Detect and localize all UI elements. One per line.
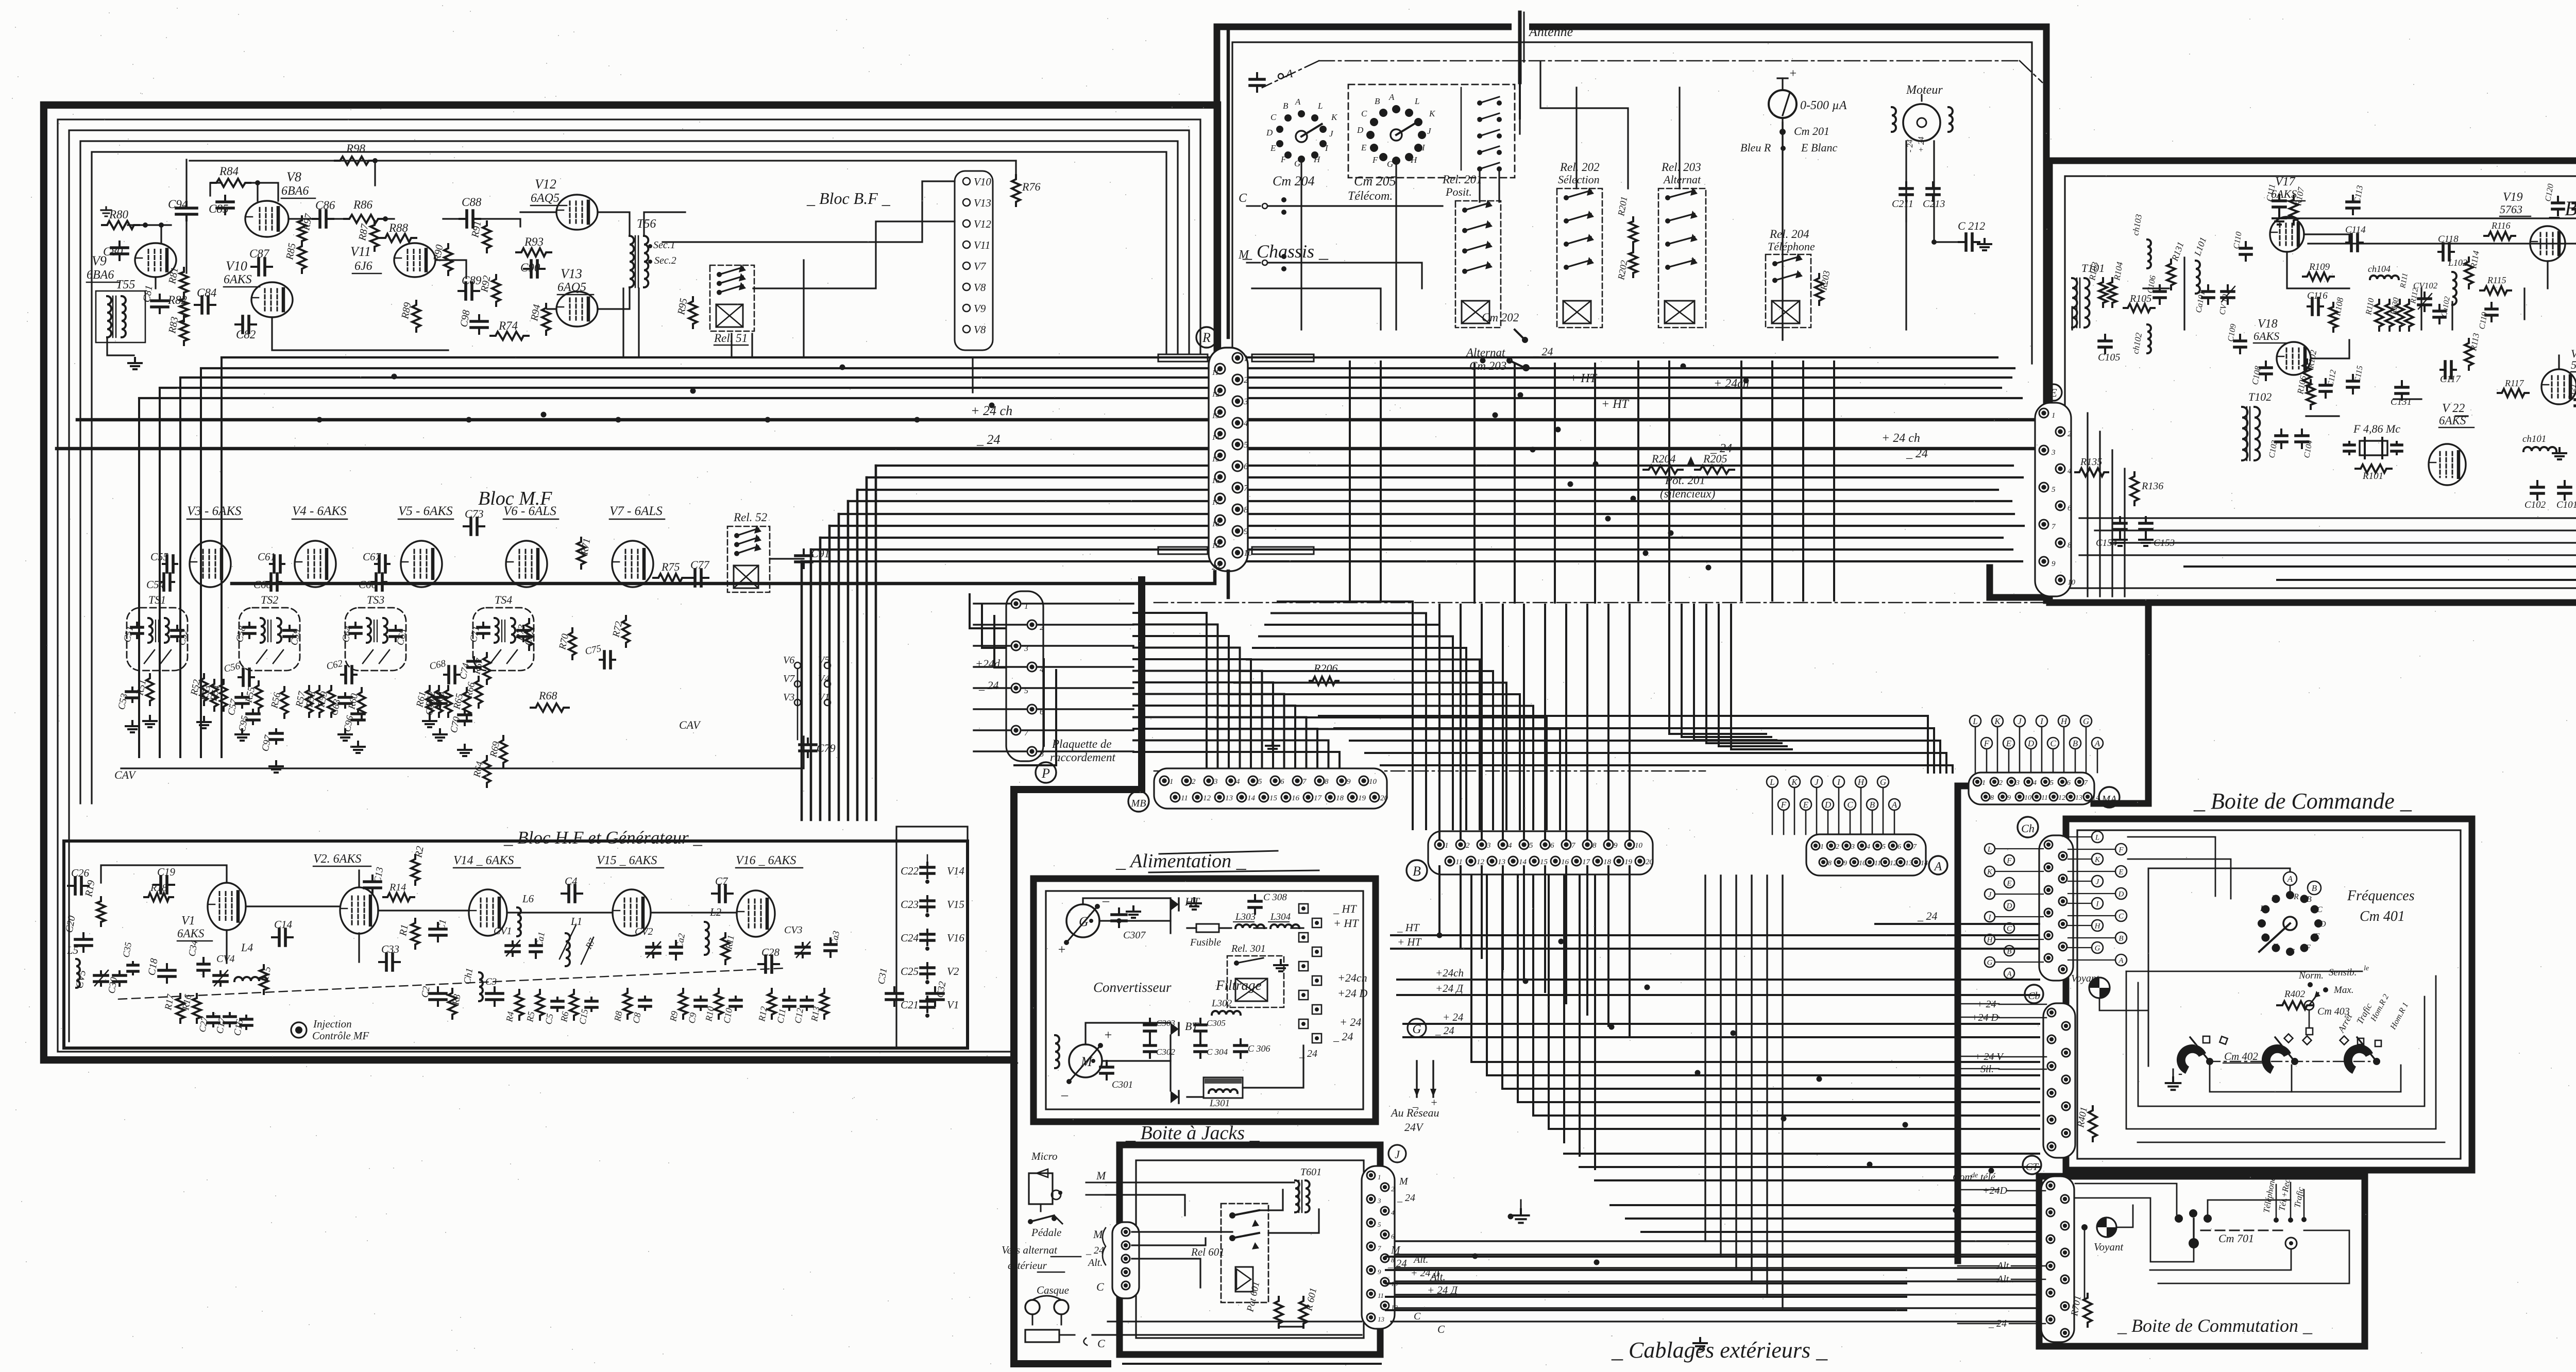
resistor R2	[411, 855, 419, 885]
HF wires	[101, 865, 227, 883]
svg-text:C: C	[1437, 1323, 1445, 1335]
svg-text:5: 5	[2050, 779, 2054, 787]
svg-text:+24ch: +24ch	[1337, 971, 1367, 984]
resistor R72	[622, 616, 630, 647]
svg-text:13: 13	[1378, 1315, 1385, 1323]
svg-text:Rel. 52: Rel. 52	[733, 511, 767, 524]
svg-text:C88: C88	[462, 196, 482, 209]
capacitor C17	[229, 1013, 231, 1017]
feedthrough C21	[926, 997, 928, 1001]
svg-text:0-500 µA: 0-500 µA	[1800, 99, 1847, 112]
tube V4	[295, 541, 336, 587]
trimmer CV102	[2424, 293, 2426, 299]
commande dash-dot	[2210, 1061, 2370, 1062]
svg-text:6AKS: 6AKS	[2253, 330, 2279, 342]
svg-text:C117: C117	[2440, 374, 2461, 385]
svg-text:CV102: CV102	[2413, 281, 2438, 290]
BF vertical drops to bus	[622, 288, 624, 357]
capacitor C106	[2159, 285, 2161, 291]
svg-text:19: 19	[1358, 794, 1366, 802]
svg-text:T55: T55	[116, 278, 135, 291]
feedthrough C23	[926, 896, 928, 901]
resistor R53	[211, 680, 218, 711]
svg-text:D: D	[2319, 920, 2326, 929]
resistor R70	[569, 628, 576, 659]
svg-text:C67: C67	[363, 551, 382, 563]
svg-text:C60: C60	[253, 578, 272, 591]
svg-text:V13: V13	[561, 266, 582, 281]
capacitor C109	[2239, 335, 2241, 341]
svg-text:Alt.: Alt.	[1087, 1257, 1103, 1268]
svg-text:V11: V11	[350, 244, 371, 259]
capacitor C66	[372, 581, 376, 583]
svg-text:6AKS: 6AKS	[177, 927, 205, 940]
coil ch102	[2147, 324, 2151, 353]
svg-text:R136: R136	[2141, 481, 2163, 492]
svg-text:CAV: CAV	[679, 718, 701, 731]
capacitor C89	[459, 290, 466, 292]
svg-text:C91: C91	[811, 547, 830, 560]
capacitor C212	[1959, 241, 1966, 243]
svg-text:6AKS: 6AKS	[224, 273, 252, 286]
rectifier diodes	[1171, 898, 1179, 911]
svg-text:_: _	[1412, 1096, 1419, 1109]
capacitor C301	[1106, 1061, 1108, 1067]
svg-text:R93: R93	[524, 235, 544, 248]
capacitor C31	[893, 987, 895, 993]
svg-text:C1: C1	[436, 918, 449, 931]
svg-text:6AQ5: 6AQ5	[531, 192, 560, 205]
relay Rel.52	[727, 526, 770, 592]
B connector risers	[1438, 605, 1440, 839]
resistor R52	[200, 674, 208, 705]
svg-text:E: E	[2006, 739, 2012, 748]
resistor R81	[180, 268, 188, 297]
svg-text:C21: C21	[901, 999, 919, 1011]
svg-text:R402: R402	[2284, 989, 2306, 1000]
capacitor C15	[590, 998, 592, 1001]
svg-text:V4: V4	[818, 673, 829, 684]
svg-text:A: A	[1934, 860, 1942, 873]
resistor R136	[2130, 472, 2139, 505]
resistor R83	[180, 316, 188, 345]
resistor R92	[492, 275, 500, 306]
svg-text:C 212: C 212	[1958, 219, 1985, 232]
svg-text:Cm 205: Cm 205	[1354, 174, 1396, 188]
svg-text:K: K	[2094, 855, 2100, 864]
coil L102	[2452, 272, 2456, 305]
svg-text:télé.: télé.	[1980, 1172, 1998, 1183]
svg-text:1: 1	[1445, 842, 1449, 850]
resistor R97	[298, 216, 306, 245]
svg-text:11: 11	[1874, 860, 1881, 867]
capacitor C62	[341, 674, 346, 676]
capacitor C85	[224, 196, 226, 202]
fuse	[1196, 924, 1219, 932]
capacitor C111 ground	[2278, 195, 2280, 201]
svg-text:3: 3	[1243, 397, 1248, 406]
svg-text:Télécom.: Télécom.	[1348, 190, 1393, 203]
svg-text:20: 20	[1212, 563, 1220, 572]
svg-text:Cm 401: Cm 401	[2360, 908, 2405, 924]
svg-text:R135: R135	[2080, 456, 2102, 468]
connector A	[1806, 834, 1926, 876]
svg-text:ch104: ch104	[2368, 264, 2391, 274]
transformer TS2	[239, 608, 300, 671]
svg-text:_: _	[1102, 888, 1110, 903]
connector CT circle	[2023, 1156, 2041, 1174]
svg-text:Cm 203: Cm 203	[1469, 359, 1506, 372]
svg-text:6AKS: 6AKS	[2271, 187, 2297, 200]
svg-text:C9: C9	[686, 1012, 698, 1024]
capacitor C95	[252, 710, 254, 714]
capacitor C33	[379, 961, 386, 963]
jacks M pin column	[1112, 1222, 1139, 1298]
heavy bar near emetteur bottom	[1990, 568, 2049, 597]
svg-text:TS4: TS4	[495, 593, 512, 606]
voyant commutation	[2097, 1217, 2116, 1237]
svg-text:Rel. 201: Rel. 201	[1442, 173, 1482, 186]
svg-text:_ 24: _ 24	[1299, 1048, 1317, 1059]
svg-text:C: C	[2007, 924, 2012, 933]
svg-text:12: 12	[2058, 794, 2065, 802]
svg-text:17: 17	[1314, 794, 1323, 802]
svg-text:E: E	[2314, 932, 2320, 941]
resistor R105	[2124, 304, 2155, 312]
svg-text:L6: L6	[522, 893, 534, 905]
svg-text:C66: C66	[359, 578, 377, 591]
resistor R93	[516, 248, 551, 256]
svg-text:15: 15	[1540, 858, 1548, 866]
connector P circle	[1036, 762, 1056, 783]
svg-text:I: I	[2263, 932, 2266, 941]
resistor R117	[2498, 389, 2529, 397]
capacitor C16	[245, 1016, 247, 1019]
boite de commutation box	[2039, 1176, 2365, 1346]
emetteur bus wires	[2079, 517, 2576, 519]
relay Rel.51	[710, 265, 754, 331]
svg-text:D: D	[2006, 902, 2012, 910]
svg-text:_ 24: _ 24	[1917, 910, 1938, 922]
capacitors C154 C153	[2119, 517, 2121, 523]
svg-text:C101: C101	[2556, 500, 2576, 510]
coil L101	[2196, 261, 2200, 294]
capacitor C75	[600, 659, 604, 661]
A letter leads	[1772, 787, 1773, 834]
connector A circle	[1929, 856, 1947, 874]
svg-text:12: 12	[1212, 390, 1220, 399]
staircase wires to B connector	[1278, 602, 1413, 829]
capacitor C34	[202, 958, 205, 964]
svg-text:Rel 601: Rel 601	[1191, 1246, 1225, 1258]
MF grounds	[131, 721, 133, 726]
tube V5	[401, 541, 442, 587]
svg-text:13: 13	[2075, 794, 2082, 802]
Cm402 contacts	[2203, 1036, 2210, 1043]
svg-text:6: 6	[2067, 504, 2072, 512]
resistor R107	[2290, 196, 2298, 225]
svg-text:5763: 5763	[2500, 203, 2522, 216]
capacitor C112	[2325, 379, 2327, 385]
coil L304	[1270, 924, 1299, 928]
svg-text:R3: R3	[450, 993, 463, 1006]
tube V14	[469, 889, 507, 936]
emetteur link wires	[2277, 217, 2576, 219]
svg-text:_ 24: _ 24	[1533, 345, 1553, 358]
resistor R9	[679, 989, 687, 1019]
svg-text:2: 2	[1836, 843, 1839, 851]
capacitor C11	[788, 997, 790, 1000]
capacitor C308	[1254, 895, 1256, 901]
feedthrough C22	[926, 863, 928, 867]
svg-text:C19: C19	[157, 866, 176, 878]
CAV wire	[121, 736, 804, 768]
ground near MB	[1272, 741, 1274, 746]
resistor R90	[444, 244, 452, 275]
resistor R64	[483, 756, 490, 787]
wires BF interconnect	[128, 224, 171, 226]
resistor R88	[380, 234, 416, 242]
commande ground	[2172, 1077, 2174, 1083]
capacitor C26	[68, 885, 75, 887]
svg-text:L: L	[1769, 777, 1774, 787]
svg-text:C28: C28	[761, 946, 780, 958]
connector Cb circle	[2025, 985, 2043, 1003]
svg-text:C105: C105	[2098, 352, 2120, 363]
connector E emetteur left	[2045, 384, 2062, 401]
commande nested wire U	[2138, 983, 2425, 1106]
svg-text:1: 1	[1378, 1173, 1381, 1181]
svg-text:V9: V9	[974, 302, 986, 315]
capacitor C77	[688, 577, 695, 579]
R connector key blocks	[1158, 354, 1208, 362]
svg-text:16: 16	[1212, 477, 1220, 485]
svg-text:B: B	[1283, 101, 1289, 111]
resistor R68	[531, 704, 569, 712]
svg-text:5: 5	[1258, 778, 1262, 786]
resistor R701	[2083, 1294, 2092, 1327]
svg-text:17: 17	[1212, 499, 1221, 507]
chassis dash-dot top	[1319, 60, 2020, 62]
capacitor C307	[1118, 908, 1120, 915]
svg-text:V4 - 6AKS: V4 - 6AKS	[292, 504, 347, 518]
injection controle MF	[291, 1022, 307, 1038]
HF inner box	[64, 841, 968, 1048]
svg-text:D: D	[2118, 890, 2124, 898]
svg-text:V6 - 6ALS: V6 - 6ALS	[503, 504, 556, 518]
svg-text:R115: R115	[2487, 275, 2506, 285]
svg-text:C8: C8	[631, 1012, 642, 1024]
connector R circle label	[1196, 327, 1217, 348]
resistor R109	[2303, 272, 2334, 281]
svg-text:11: 11	[1181, 794, 1188, 802]
transformer TS4	[473, 608, 534, 671]
svg-text:B: B	[1375, 96, 1380, 106]
svg-text:Com: Com	[1953, 1172, 1972, 1183]
svg-text:V8: V8	[974, 281, 986, 294]
svg-text:+ 24: + 24	[1917, 136, 1926, 152]
interconnect junction dots	[1437, 933, 1443, 938]
tube V7	[612, 541, 653, 587]
resistor R10	[715, 989, 723, 1019]
connector B	[1428, 831, 1653, 874]
svg-text:C54: C54	[146, 578, 165, 591]
resistor R94	[542, 304, 550, 335]
svg-text:R5: R5	[524, 1011, 536, 1023]
generator G circle	[1066, 904, 1099, 937]
svg-text:B: B	[1870, 800, 1875, 810]
svg-text:Antenne: Antenne	[1528, 24, 1573, 39]
svg-text:R18: R18	[150, 882, 167, 894]
svg-text:+: +	[1057, 942, 1066, 957]
svg-text:V12: V12	[974, 218, 991, 230]
resistor R87	[370, 221, 379, 251]
svg-text:V7: V7	[974, 260, 987, 272]
coil L301 choke	[1204, 1077, 1243, 1098]
svg-text:7: 7	[2084, 779, 2088, 787]
svg-text:Max.: Max.	[2333, 985, 2354, 996]
resistor R95	[689, 297, 697, 328]
svg-text:C 306: C 306	[1248, 1043, 1270, 1054]
transformer T102	[2242, 407, 2247, 460]
svg-text:C26: C26	[71, 867, 90, 879]
svg-text:+ HT: + HT	[1569, 372, 1598, 385]
heavy wire +24ch	[77, 418, 2035, 422]
svg-text:4: 4	[1236, 778, 1240, 786]
svg-text:T601: T601	[1300, 1167, 1321, 1178]
svg-text:2: 2	[1192, 778, 1196, 786]
jacks wires	[1106, 1181, 1294, 1183]
svg-text:Cm 701: Cm 701	[2218, 1232, 2254, 1245]
resistor R11	[721, 933, 730, 964]
svg-text:K: K	[1987, 868, 1993, 876]
resistor R12	[768, 989, 776, 1019]
svg-text:4: 4	[1508, 842, 1512, 850]
svg-text:+24ch: +24ch	[1435, 967, 1464, 979]
svg-text:B: B	[2312, 883, 2317, 893]
transformer T101	[2072, 278, 2077, 328]
capacitor C105	[2104, 335, 2106, 341]
svg-text:D: D	[1824, 800, 1832, 810]
tube V18	[2277, 342, 2311, 375]
svg-text:R4: R4	[504, 1011, 516, 1023]
capacitors C305 C304	[1199, 1019, 1201, 1025]
resistor R61	[426, 686, 433, 717]
Cm701 switch	[2175, 1214, 2183, 1223]
svg-text:Cm 201: Cm 201	[1794, 125, 1829, 138]
svg-text:R68: R68	[538, 689, 557, 702]
resistor R73	[526, 619, 533, 650]
antenna into chassis	[1519, 31, 1521, 118]
svg-text:3: 3	[1377, 1197, 1381, 1205]
svg-text:1: 1	[1244, 353, 1248, 363]
feedthrough box	[896, 827, 968, 1048]
svg-text:+ 24: + 24	[1340, 1016, 1361, 1028]
svg-text:K: K	[2260, 904, 2266, 913]
coil ch104	[2370, 276, 2399, 279]
svg-text:G: G	[2289, 948, 2295, 956]
resistors R111 R112	[2396, 300, 2404, 331]
svg-text:V13: V13	[974, 197, 991, 209]
resistor R82	[180, 295, 188, 321]
resistor R108	[2329, 303, 2337, 332]
bus wires left box to R connector	[222, 356, 1997, 358]
svg-text:Téléphone: Téléphone	[1768, 240, 1815, 253]
svg-text:Contrôle MF: Contrôle MF	[312, 1030, 369, 1042]
svg-text:C307: C307	[1123, 930, 1146, 941]
capacitor C57	[241, 693, 243, 697]
svg-text:Injection: Injection	[313, 1018, 352, 1030]
svg-text:9: 9	[2052, 560, 2056, 568]
svg-text:1: 1	[1820, 843, 1824, 851]
svg-text:C89: C89	[462, 274, 482, 287]
connector Cb	[2043, 1003, 2075, 1158]
svg-text:Pédale: Pédale	[1031, 1226, 1061, 1239]
resistor R63	[445, 686, 452, 717]
tube V16	[737, 890, 775, 937]
svg-text:R86: R86	[353, 198, 373, 211]
svg-text:V15 _ 6AKS: V15 _ 6AKS	[597, 854, 657, 867]
svg-text:F: F	[2305, 944, 2311, 952]
svg-text:H: H	[1313, 155, 1321, 164]
resistor R18	[144, 893, 173, 901]
emetteur wires	[2071, 307, 2073, 330]
svg-text:ch101: ch101	[2522, 434, 2546, 444]
svg-text:le: le	[2364, 965, 2369, 972]
rotary Cm205 telecom	[1348, 84, 1515, 178]
capacitor C32	[934, 987, 936, 993]
Ch letters right	[2092, 831, 2103, 843]
svg-text:_ 24: _ 24	[978, 679, 999, 692]
svg-text:8: 8	[1592, 842, 1597, 850]
svg-text:Micro: Micro	[1031, 1150, 1058, 1162]
coil L5	[76, 959, 80, 988]
svg-text:L301: L301	[1209, 1098, 1230, 1109]
svg-text:Filtrage: Filtrage	[1215, 977, 1262, 993]
heavy bar commande top extension	[2094, 604, 2148, 803]
svg-text:H: H	[2060, 716, 2068, 726]
svg-text:C90: C90	[520, 261, 540, 274]
svg-text:C 304: C 304	[1207, 1047, 1228, 1057]
resistor R131	[2167, 260, 2175, 289]
svg-text:11: 11	[2041, 794, 2048, 802]
resistor R401	[2089, 1106, 2097, 1141]
resistor R8	[623, 989, 632, 1019]
svg-text:C4: C4	[565, 875, 578, 887]
capacitor C110	[2245, 242, 2247, 248]
resistor R116	[2484, 232, 2515, 240]
svg-text:V14: V14	[947, 865, 964, 877]
svg-text:V3: V3	[783, 692, 794, 703]
svg-text:+24d: +24d	[975, 657, 1001, 670]
svg-text:R82: R82	[167, 294, 187, 306]
svg-text:4: 4	[2067, 467, 2072, 475]
svg-text:14: 14	[1519, 858, 1527, 866]
svg-text:TS3: TS3	[367, 593, 384, 606]
svg-text:_ Boite à Jacks _: _ Boite à Jacks _	[1125, 1122, 1260, 1144]
svg-text:D: D	[1266, 128, 1273, 138]
svg-text:+: +	[1789, 67, 1797, 80]
connector MB circle	[1128, 791, 1149, 812]
svg-text:C86: C86	[315, 199, 335, 212]
svg-text:Sélection: Sélection	[1558, 173, 1600, 186]
svg-text:Voyant: Voyant	[2071, 973, 2099, 984]
coil L302	[1212, 1011, 1241, 1015]
svg-text:R74: R74	[498, 319, 518, 332]
svg-text:K: K	[1994, 716, 2001, 726]
resistor R84	[211, 179, 250, 187]
svg-text:Fréquences: Fréquences	[2347, 888, 2415, 904]
